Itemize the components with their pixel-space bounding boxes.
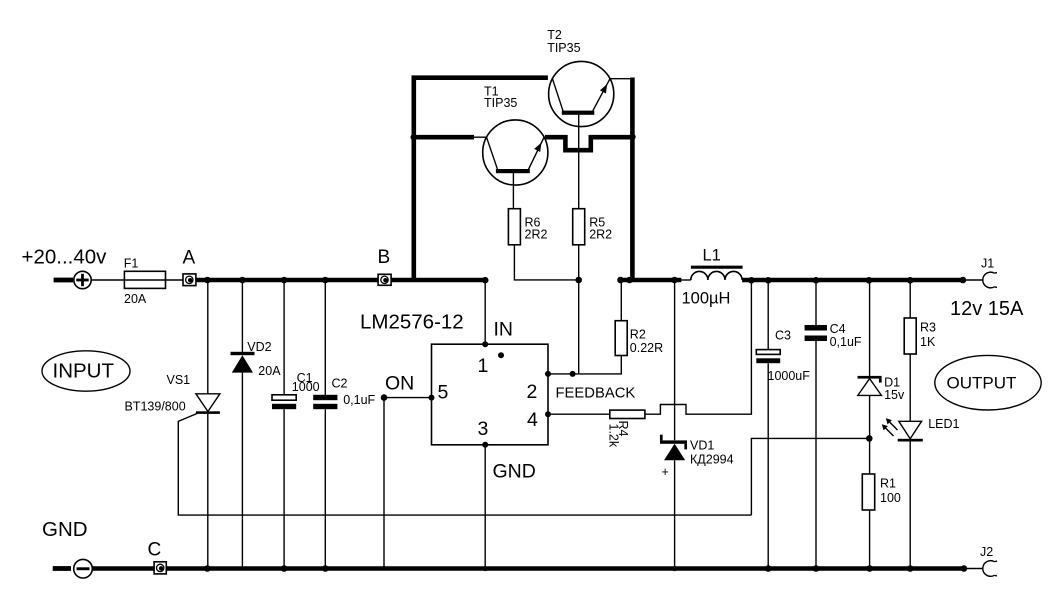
- node IN bus tap: [482, 277, 489, 284]
- resistor R2: [615, 280, 663, 356]
- node C2 gnd: [322, 565, 329, 572]
- wire ON pin5: [384, 397, 432, 399]
- node pin4: [545, 411, 551, 417]
- diode VD1: [660, 435, 734, 567]
- svg-text:LM2576-12: LM2576-12: [360, 311, 464, 334]
- wire input to fuse: [91, 279, 124, 281]
- wire ground bus: [166, 566, 964, 571]
- led LED1: [882, 417, 960, 567]
- node bus end J1: [960, 277, 967, 284]
- transistor T1: [483, 85, 548, 186]
- capacitor C2: [313, 282, 375, 567]
- wire pin2: [548, 356, 621, 374]
- node VD2 bus tap: [239, 277, 246, 284]
- resistor R4: [606, 410, 645, 448]
- resistor R1: [862, 438, 901, 566]
- node junction V1/T1: [411, 134, 418, 141]
- node A marker: [183, 248, 196, 286]
- wire pin4 feedback: [548, 413, 610, 415]
- svg-text:12v 15A: 12v 15A: [950, 298, 1024, 320]
- node pin2: [545, 371, 551, 377]
- svg-text:5: 5: [438, 382, 449, 404]
- wire T1 emitter jog to right rail: [545, 137, 632, 150]
- svg-text:BT139/800: BT139/800: [125, 400, 186, 414]
- wire IN pin: [484, 280, 486, 344]
- svg-text:20A: 20A: [124, 292, 147, 306]
- svg-text:0.22R: 0.22R: [630, 341, 663, 355]
- svg-text:FEEDBACK: FEEDBACK: [556, 386, 636, 402]
- node pin2 wire dot: [570, 371, 576, 377]
- wire ON to ground bus: [383, 398, 385, 567]
- svg-text:2: 2: [527, 381, 538, 403]
- node pin1: [482, 341, 488, 347]
- wire thick right vertical rail: [630, 78, 635, 283]
- inductor L1: [681, 247, 742, 308]
- svg-text:GND: GND: [42, 518, 88, 541]
- node pin5: [429, 395, 435, 401]
- node rail bus: [626, 277, 633, 284]
- svg-text:VD1: VD1: [690, 439, 714, 453]
- svg-text:2R2: 2R2: [525, 228, 548, 242]
- svg-text:1000uF: 1000uF: [768, 369, 811, 383]
- wire R6 bottom to R5: [514, 245, 578, 280]
- svg-text:ON: ON: [385, 373, 414, 395]
- node R5/R6 junction: [575, 277, 582, 284]
- node VS1 bus tap: [204, 277, 211, 284]
- resistor R3: [904, 282, 936, 421]
- wire bus to VD1: [674, 280, 676, 440]
- node C marker: [148, 540, 167, 574]
- svg-text:B: B: [378, 247, 391, 268]
- connector J1: [964, 257, 997, 288]
- svg-text:15v: 15v: [884, 388, 905, 402]
- node bus end J2: [961, 565, 968, 572]
- svg-text:C4: C4: [830, 322, 846, 336]
- svg-text:R1: R1: [880, 477, 896, 491]
- wire thick bus switch node: [619, 278, 681, 283]
- node C2 bus tap: [322, 277, 329, 284]
- node jog junction: [629, 134, 636, 141]
- diode VD2: [231, 282, 282, 567]
- wire pin3 to ground: [484, 445, 486, 567]
- wire thick T1 collector stub: [412, 135, 474, 140]
- wire main top bus: [196, 278, 485, 283]
- svg-text:1K: 1K: [920, 335, 936, 349]
- wire T1 base lead: [512, 172, 514, 209]
- svg-text:INPUT: INPUT: [53, 360, 115, 383]
- svg-text:КД2994: КД2994: [690, 453, 734, 467]
- fuse F1: [124, 257, 183, 307]
- wire minus to C: [92, 566, 154, 571]
- capacitor C1: [272, 282, 320, 567]
- wire R5 bottom down to pin2 net: [578, 245, 580, 374]
- node C4 gnd: [813, 565, 820, 572]
- thyristor VS1: [125, 282, 220, 567]
- wire T2 base lead: [578, 113, 580, 209]
- svg-text:1: 1: [478, 355, 489, 377]
- node C3 gnd: [765, 565, 772, 572]
- svg-text:+20...40v: +20...40v: [22, 246, 108, 269]
- svg-text:J1: J1: [981, 257, 994, 271]
- svg-text:VD2: VD2: [247, 340, 271, 354]
- svg-text:A: A: [183, 248, 196, 269]
- svg-text:R2: R2: [630, 328, 646, 342]
- svg-text:T2: T2: [547, 28, 562, 42]
- OUTPUT ellipse: [935, 355, 1041, 410]
- node stray dot pin1: [498, 352, 504, 358]
- svg-text:0,1uF: 0,1uF: [343, 393, 375, 407]
- zener D1: [858, 282, 906, 438]
- capacitor C4: [805, 282, 862, 567]
- svg-text:TIP35: TIP35: [484, 96, 517, 110]
- node feedback tap: [748, 277, 755, 284]
- INPUT ellipse: [42, 351, 130, 391]
- transistor T2: [547, 28, 614, 127]
- svg-text:TIP35: TIP35: [547, 41, 580, 55]
- resistor R5: [573, 209, 612, 245]
- svg-text:4: 4: [527, 409, 538, 431]
- wire T2 emitter to right rail: [610, 78, 631, 80]
- svg-text:F1: F1: [124, 257, 139, 271]
- svg-text:1.2k: 1.2k: [606, 424, 620, 448]
- node R3 tap: [907, 277, 914, 284]
- node ON: [381, 394, 388, 401]
- input minus terminal: [53, 559, 93, 578]
- node R1 gnd: [866, 565, 873, 572]
- wire VS1 gate: [178, 414, 751, 516]
- wire thick output bus: [742, 278, 964, 283]
- wire feedback bridge to output node: [645, 280, 752, 414]
- node C1 bus tap: [281, 277, 288, 284]
- node LED1 gnd: [907, 565, 914, 572]
- svg-text:VS1: VS1: [167, 373, 191, 387]
- svg-text:IN: IN: [494, 319, 514, 341]
- svg-text:L1: L1: [703, 247, 721, 265]
- connector J2: [964, 545, 997, 576]
- svg-text:3: 3: [478, 418, 489, 440]
- svg-text:100: 100: [880, 491, 901, 505]
- svg-text:+: +: [662, 465, 669, 479]
- wire thick vertical collector rail: [414, 78, 548, 282]
- svg-text:R3: R3: [920, 321, 936, 335]
- svg-text:2R2: 2R2: [589, 228, 612, 242]
- svg-text:C3: C3: [775, 329, 791, 343]
- svg-text:OUTPUT: OUTPUT: [947, 374, 1017, 393]
- node VD1 bus tap: [671, 277, 678, 284]
- node pin3: [482, 442, 488, 448]
- svg-text:1000: 1000: [292, 380, 320, 394]
- node C3 tap: [765, 277, 772, 284]
- svg-text:0,1uF: 0,1uF: [830, 335, 862, 349]
- capacitor C3: [756, 282, 810, 567]
- svg-text:GND: GND: [493, 461, 536, 483]
- svg-text:20A: 20A: [258, 364, 281, 378]
- node VD1 gnd: [672, 566, 677, 571]
- node D1 tap: [866, 277, 873, 284]
- node C4 tap: [813, 277, 820, 284]
- node D1 anode junction: [866, 435, 873, 442]
- node R2 top: [617, 277, 624, 284]
- node pin3 gnd: [483, 566, 488, 571]
- svg-text:LED1: LED1: [928, 417, 959, 431]
- svg-text:C2: C2: [332, 377, 348, 391]
- input plus terminal: [54, 271, 92, 288]
- svg-text:C: C: [148, 540, 162, 561]
- svg-text:J2: J2: [980, 545, 993, 559]
- op-amp U1 LM2576-12 box: [360, 311, 548, 483]
- node B marker: [378, 247, 392, 285]
- node VS1 gnd: [204, 565, 211, 572]
- svg-text:100µH: 100µH: [682, 290, 731, 308]
- resistor R6: [508, 209, 547, 245]
- node C1 gnd: [281, 565, 288, 572]
- wire crowbar sense: [751, 438, 869, 515]
